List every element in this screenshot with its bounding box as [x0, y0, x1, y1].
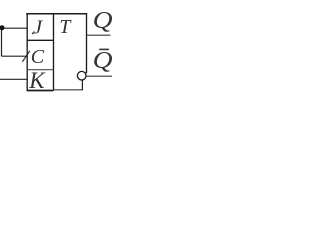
svg-text:T: T — [59, 16, 72, 38]
svg-text:J: J — [33, 16, 43, 38]
svg-text:C: C — [31, 46, 45, 68]
svg-text:K: K — [28, 68, 46, 93]
svg-text:Q: Q — [93, 46, 113, 73]
svg-text:Q: Q — [93, 7, 113, 34]
